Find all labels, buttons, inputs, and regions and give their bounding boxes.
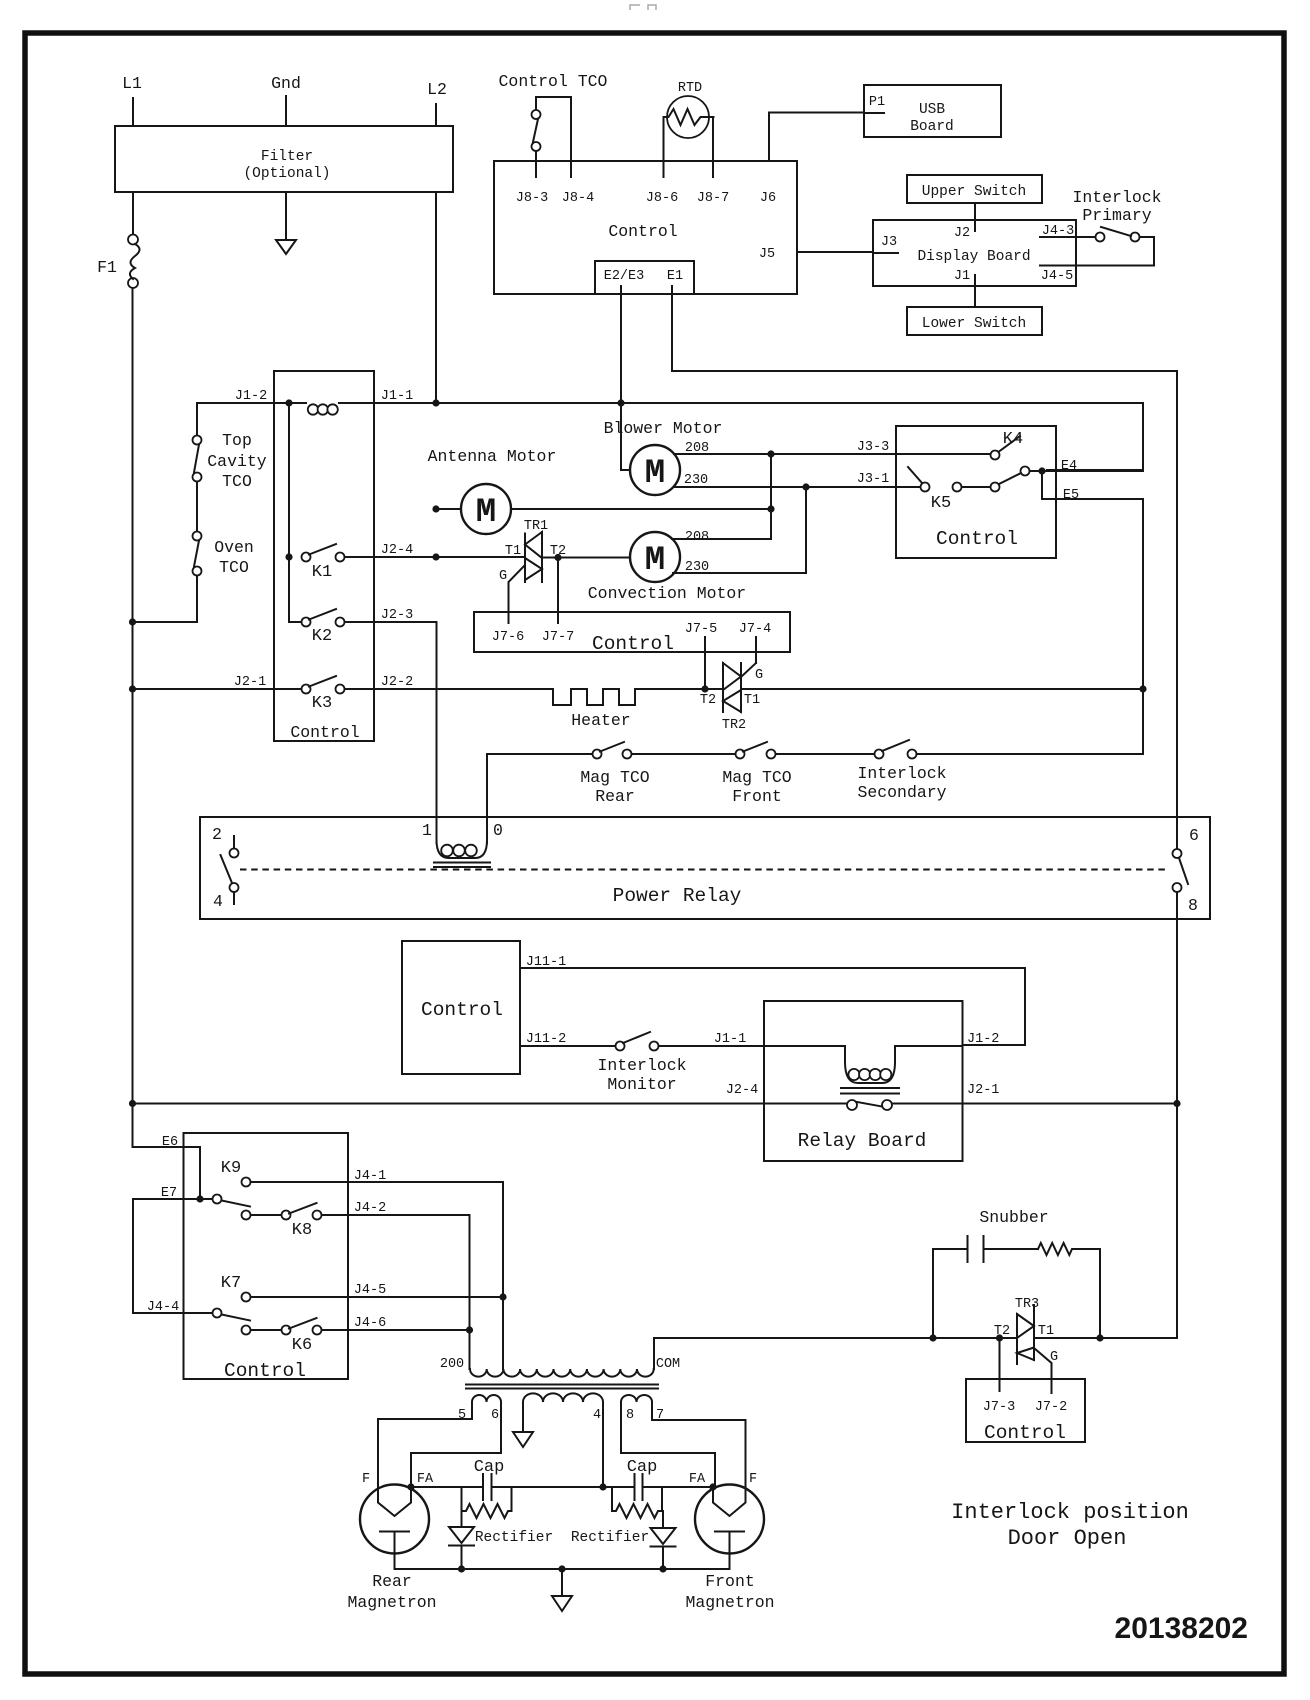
svg-text:J4-2: J4-2 bbox=[354, 1201, 386, 1216]
wire TR3 T2 to J7-3 bbox=[999, 1338, 1001, 1391]
wire upper switch to J2 bbox=[974, 203, 976, 231]
svg-text:J1-1: J1-1 bbox=[714, 1032, 746, 1047]
svg-text:L1: L1 bbox=[122, 74, 142, 93]
wire J6 to USB board bbox=[769, 113, 864, 162]
svg-text:USB: USB bbox=[919, 102, 945, 118]
svg-text:K7: K7 bbox=[221, 1274, 241, 1293]
svg-text:Lower Switch: Lower Switch bbox=[922, 316, 1026, 332]
svg-text:Mag TCO: Mag TCO bbox=[722, 768, 791, 787]
wire display board to lower switch bbox=[974, 286, 976, 307]
transformer T1 primary bbox=[440, 1338, 680, 1377]
svg-text:Control: Control bbox=[224, 1360, 306, 1382]
relay board contact bbox=[847, 1100, 892, 1110]
node dot TR2 T2 bbox=[701, 685, 708, 692]
svg-text:Mag TCO: Mag TCO bbox=[580, 768, 649, 787]
control box J7 bbox=[474, 612, 790, 655]
svg-text:Front: Front bbox=[705, 1572, 755, 1591]
svg-text:G: G bbox=[755, 668, 763, 683]
svg-text:T1: T1 bbox=[1038, 1324, 1054, 1339]
wire J7-5 to TR2 T2 bbox=[704, 637, 706, 689]
node dot TR1 T2 bbox=[554, 554, 561, 561]
svg-text:Control TCO: Control TCO bbox=[499, 72, 608, 91]
E2/E3 E1 terminal box bbox=[595, 261, 694, 294]
relay contact K9 bbox=[213, 1159, 251, 1207]
antenna motor M1 bbox=[428, 447, 771, 534]
svg-text:Rectifier: Rectifier bbox=[475, 1530, 553, 1546]
svg-text:J2-1: J2-1 bbox=[234, 675, 266, 690]
svg-text:TR1: TR1 bbox=[524, 519, 548, 534]
relay board coil bbox=[764, 1046, 963, 1094]
relay contact K3 bbox=[302, 676, 345, 713]
svg-text:4: 4 bbox=[213, 892, 223, 911]
wire J4-4 bbox=[133, 1300, 212, 1315]
svg-text:J8-7: J8-7 bbox=[697, 191, 729, 206]
relay contact pins 6/8 bbox=[1173, 826, 1199, 915]
convection motor M3 bbox=[543, 454, 806, 603]
capacitor Cap front bbox=[627, 1458, 658, 1500]
svg-text:2: 2 bbox=[212, 825, 222, 844]
svg-text:E1: E1 bbox=[667, 269, 683, 284]
svg-text:Door Open: Door Open bbox=[1008, 1526, 1127, 1551]
svg-text:K3: K3 bbox=[312, 694, 332, 713]
svg-text:Upper Switch: Upper Switch bbox=[922, 184, 1026, 200]
thermostat top cavity TCO bbox=[193, 431, 267, 532]
svg-text:Interlock position: Interlock position bbox=[951, 1500, 1189, 1525]
node dot J4-5 tie bbox=[499, 1293, 506, 1300]
svg-text:M: M bbox=[476, 494, 496, 532]
svg-text:(Optional): (Optional) bbox=[243, 166, 330, 182]
svg-text:M: M bbox=[645, 455, 665, 493]
wire J11-2 to interlock monitor bbox=[520, 1032, 615, 1047]
svg-text:Control: Control bbox=[290, 723, 359, 742]
svg-text:1: 1 bbox=[422, 821, 432, 840]
svg-text:M: M bbox=[645, 542, 665, 580]
svg-text:Control: Control bbox=[608, 222, 677, 241]
svg-text:L2: L2 bbox=[427, 80, 447, 99]
interlock primary switch bbox=[1072, 188, 1161, 266]
svg-text:Secondary: Secondary bbox=[857, 783, 946, 802]
svg-text:J5: J5 bbox=[759, 247, 775, 262]
svg-text:J6: J6 bbox=[760, 191, 776, 206]
triac TR3 bbox=[994, 1297, 1058, 1393]
svg-text:Gnd: Gnd bbox=[271, 74, 301, 93]
svg-text:E5: E5 bbox=[1063, 488, 1079, 503]
wire J2-4 long rail bbox=[133, 1083, 848, 1104]
svg-text:Heater: Heater bbox=[571, 711, 630, 730]
upper switch box bbox=[907, 175, 1042, 203]
magnetron front bbox=[685, 1472, 774, 1612]
display board bbox=[873, 220, 1076, 286]
wire J4-1 bbox=[251, 1169, 504, 1369]
svg-text:Primary: Primary bbox=[1082, 206, 1151, 225]
svg-text:J2: J2 bbox=[954, 226, 970, 241]
node dot J2-1 on L1 rail bbox=[129, 685, 136, 692]
thermostat mag TCO rear bbox=[580, 742, 735, 806]
svg-text:J3-3: J3-3 bbox=[857, 440, 889, 455]
wire E2/E3 down to node bbox=[620, 286, 622, 403]
svg-text:K5: K5 bbox=[931, 494, 951, 513]
wire E7 to J4-4 vertical bbox=[132, 1199, 134, 1313]
relay contact pins 2/4 bbox=[212, 825, 238, 911]
wire pin8 down right rail bbox=[1052, 892, 1178, 1338]
node dot snubber right bbox=[1096, 1334, 1103, 1341]
svg-text:J2-1: J2-1 bbox=[967, 1083, 999, 1098]
node dot K1 branch bbox=[285, 553, 292, 560]
snubber network bbox=[933, 1208, 1100, 1338]
svg-text:Oven: Oven bbox=[214, 538, 254, 557]
svg-text:Snubber: Snubber bbox=[979, 1208, 1048, 1227]
control box K4/K5 bbox=[896, 426, 1056, 558]
diode rectifier rear bbox=[449, 1511, 553, 1569]
svg-text:Rear: Rear bbox=[372, 1572, 412, 1591]
control box J11 bbox=[402, 941, 520, 1074]
node dot J4-6 tie bbox=[466, 1326, 473, 1333]
svg-text:230: 230 bbox=[684, 473, 708, 488]
svg-text:Control: Control bbox=[592, 633, 674, 655]
svg-text:200: 200 bbox=[440, 1357, 464, 1372]
svg-text:P1: P1 bbox=[869, 95, 885, 110]
svg-text:Control: Control bbox=[421, 999, 503, 1021]
svg-text:J1-2: J1-2 bbox=[235, 389, 267, 404]
node dot antenna tap bbox=[432, 505, 439, 512]
svg-text:J4-6: J4-6 bbox=[354, 1316, 386, 1331]
control box K1-K3 bbox=[274, 371, 374, 742]
relay contact K6 bbox=[213, 1309, 322, 1356]
svg-text:FA: FA bbox=[417, 1472, 434, 1487]
svg-text:F: F bbox=[362, 1472, 370, 1487]
wire J2-2 rail with heater gap bbox=[345, 675, 1144, 690]
relay board box bbox=[764, 1001, 963, 1161]
thermostat mag TCO front bbox=[722, 742, 874, 806]
svg-text:FA: FA bbox=[689, 1472, 706, 1487]
transformer T1 secondary 8-7 bbox=[621, 1395, 746, 1489]
transformer T1 core bbox=[466, 1385, 658, 1389]
svg-text:J8-6: J8-6 bbox=[646, 191, 678, 206]
svg-text:8: 8 bbox=[1188, 896, 1198, 915]
svg-text:Filter: Filter bbox=[261, 149, 313, 165]
svg-text:Display Board: Display Board bbox=[917, 249, 1030, 265]
wire J4-6 bbox=[322, 1316, 470, 1331]
node dot front FA bbox=[709, 1483, 716, 1490]
wire L1 to fuse bbox=[132, 192, 134, 234]
wire E5 bbox=[1042, 470, 1143, 754]
node dot J2-4/L2 bbox=[432, 553, 439, 560]
svg-text:J7-5: J7-5 bbox=[685, 622, 717, 637]
node dot J2-1 right rail bbox=[1173, 1100, 1180, 1107]
control box J7 bottom bbox=[966, 1379, 1085, 1444]
relay contact K7 bbox=[221, 1274, 251, 1302]
wire J2-1 bbox=[133, 675, 302, 690]
node Gnd bbox=[271, 74, 301, 126]
svg-text:K8: K8 bbox=[292, 1221, 312, 1240]
wire J5 to display board bbox=[759, 247, 873, 262]
svg-text:J7-6: J7-6 bbox=[492, 630, 524, 645]
wire L2 down to main node bbox=[435, 192, 437, 403]
transformer T1 secondary 4 with ground tap bbox=[513, 1393, 603, 1487]
svg-text:Interlock: Interlock bbox=[597, 1056, 686, 1075]
svg-text:Control: Control bbox=[984, 1422, 1066, 1444]
triac TR2 bbox=[700, 663, 763, 733]
wire J4-2 bbox=[322, 1201, 470, 1369]
svg-text:J11-2: J11-2 bbox=[526, 1032, 567, 1047]
svg-text:T2: T2 bbox=[994, 1324, 1010, 1339]
svg-text:J3: J3 bbox=[881, 235, 897, 250]
diode rectifier front bbox=[571, 1511, 676, 1569]
wire J2-4 bbox=[345, 543, 525, 558]
node dot L2 rail bbox=[432, 399, 439, 406]
svg-text:Convection Motor: Convection Motor bbox=[588, 584, 746, 603]
node dot E2/E3 rail bbox=[617, 399, 624, 406]
wire J4-5 bbox=[251, 1283, 504, 1298]
node dot antenna/208 tie bbox=[767, 505, 774, 512]
svg-text:J7-3: J7-3 bbox=[983, 1400, 1015, 1415]
svg-text:J4-5: J4-5 bbox=[354, 1283, 386, 1298]
node dot J2-2 E5 bbox=[1139, 685, 1146, 692]
svg-text:Relay Board: Relay Board bbox=[798, 1130, 927, 1152]
svg-text:20138202: 20138202 bbox=[1115, 1612, 1248, 1645]
node dot front rectifier bbox=[659, 1565, 666, 1572]
svg-text:Rectifier: Rectifier bbox=[571, 1530, 649, 1546]
transformer T1 secondary 5-6 bbox=[378, 1395, 501, 1489]
control box K6-K9 bbox=[184, 1133, 349, 1382]
wire L1 main left vertical bbox=[132, 288, 134, 1147]
svg-text:Interlock: Interlock bbox=[1072, 188, 1161, 207]
relay contact K4 bbox=[857, 430, 1023, 460]
svg-text:208: 208 bbox=[685, 530, 709, 545]
svg-text:J2-3: J2-3 bbox=[381, 608, 413, 623]
wire J1-2 down to TCO bbox=[196, 403, 198, 435]
switch interlock secondary bbox=[857, 740, 1143, 802]
svg-text:J1-1: J1-1 bbox=[381, 389, 413, 404]
node dot TR3 T2 bbox=[996, 1334, 1003, 1341]
power relay box bbox=[200, 817, 1210, 919]
relay contact K8 bbox=[242, 1203, 322, 1240]
svg-text:Magnetron: Magnetron bbox=[685, 1593, 774, 1612]
wire COM rail to TR3 bbox=[654, 1337, 1177, 1339]
ground symbol below filter bbox=[276, 192, 296, 254]
svg-text:J8-3: J8-3 bbox=[516, 191, 548, 206]
node dot snubber left bbox=[929, 1334, 936, 1341]
node dot rear rectifier bbox=[458, 1565, 465, 1572]
svg-text:Board: Board bbox=[910, 119, 954, 135]
svg-text:Front: Front bbox=[732, 787, 782, 806]
inductor coil J1 bbox=[308, 404, 318, 414]
resistor bleed rear bbox=[462, 1487, 512, 1518]
capacitor Cap rear bbox=[474, 1458, 505, 1500]
wire E1 long to power relay pin6 bbox=[672, 286, 1177, 849]
wire T2 to J7-7 bbox=[557, 558, 559, 623]
wire J7-4 to TR2 gate bbox=[755, 637, 757, 663]
node dot 208 tie bbox=[767, 450, 774, 457]
svg-text:Magnetron: Magnetron bbox=[347, 1593, 436, 1612]
control TCO switch bbox=[499, 72, 608, 177]
node dot E6/E7 junction bbox=[196, 1195, 203, 1202]
svg-text:J2-2: J2-2 bbox=[381, 675, 413, 690]
svg-text:Cavity: Cavity bbox=[207, 452, 267, 471]
svg-text:K9: K9 bbox=[221, 1159, 241, 1178]
svg-text:J2-4: J2-4 bbox=[381, 543, 413, 558]
svg-text:J1-2: J1-2 bbox=[967, 1032, 999, 1047]
svg-text:6: 6 bbox=[491, 1408, 499, 1423]
heater element bbox=[553, 689, 635, 730]
svg-text:Interlock: Interlock bbox=[857, 764, 946, 783]
svg-text:Control: Control bbox=[936, 528, 1018, 550]
resistor bleed front bbox=[612, 1487, 662, 1518]
node dot 230 tie bbox=[802, 483, 809, 490]
wire power relay pin0 to interlock secondary rail bbox=[487, 754, 597, 843]
svg-text:4: 4 bbox=[593, 1408, 601, 1423]
switch interlock monitor bbox=[597, 1032, 764, 1094]
svg-text:J1: J1 bbox=[954, 269, 970, 284]
svg-text:TR3: TR3 bbox=[1015, 1297, 1039, 1312]
node dot J1-2 rail bbox=[285, 399, 292, 406]
svg-text:F: F bbox=[749, 1472, 757, 1487]
svg-text:F1: F1 bbox=[97, 258, 117, 277]
svg-text:J8-4: J8-4 bbox=[562, 191, 594, 206]
triac TR1 bbox=[499, 519, 566, 623]
svg-text:J7-7: J7-7 bbox=[542, 630, 574, 645]
svg-text:6: 6 bbox=[1189, 826, 1199, 845]
fuse F1 bbox=[97, 235, 139, 289]
svg-text:J2-4: J2-4 bbox=[726, 1083, 758, 1098]
svg-text:TCO: TCO bbox=[222, 472, 252, 491]
node dot ground tap bbox=[558, 1565, 565, 1572]
svg-text:G: G bbox=[499, 569, 507, 584]
relay coil pins 1/0 bbox=[422, 821, 503, 867]
svg-text:J7-4: J7-4 bbox=[739, 622, 771, 637]
magnetron rear bbox=[347, 1472, 436, 1612]
wire K-chain vertical bbox=[289, 403, 301, 622]
svg-text:T1: T1 bbox=[744, 693, 760, 708]
svg-text:TR2: TR2 bbox=[722, 718, 746, 733]
svg-text:Antenna Motor: Antenna Motor bbox=[428, 447, 557, 466]
svg-text:Top: Top bbox=[222, 431, 252, 450]
node L2 bbox=[427, 80, 447, 126]
relay contact K2 bbox=[302, 609, 345, 646]
svg-text:5: 5 bbox=[458, 1408, 466, 1423]
thermostat oven TCO bbox=[133, 532, 254, 623]
svg-text:T2: T2 bbox=[700, 693, 716, 708]
node dot rear FA bbox=[407, 1483, 414, 1490]
filter box (optional) bbox=[115, 126, 453, 192]
USB board bbox=[864, 85, 1001, 137]
node dot TCO to L1 rail bbox=[129, 618, 136, 625]
svg-text:T1: T1 bbox=[505, 544, 521, 559]
svg-text:Monitor: Monitor bbox=[607, 1075, 676, 1094]
svg-text:TCO: TCO bbox=[219, 558, 249, 577]
wire E7 bbox=[133, 1186, 212, 1201]
svg-text:K2: K2 bbox=[312, 627, 332, 646]
svg-text:J7-2: J7-2 bbox=[1035, 1400, 1067, 1415]
wire main top rail J1-1 to E4 bbox=[197, 389, 1143, 470]
wire J2-1 relay board to right rail bbox=[892, 1083, 1177, 1104]
svg-text:Power Relay: Power Relay bbox=[613, 885, 742, 907]
svg-text:Rear: Rear bbox=[595, 787, 635, 806]
relay contact K1 bbox=[302, 544, 345, 582]
ground symbol bottom bbox=[552, 1569, 572, 1611]
node dot pin4 to FA rail bbox=[599, 1483, 606, 1490]
svg-text:J4-5: J4-5 bbox=[1041, 269, 1073, 284]
node L1 bbox=[122, 74, 142, 126]
blower motor M2 bbox=[604, 403, 991, 495]
svg-text:E2/E3: E2/E3 bbox=[604, 269, 645, 284]
svg-text:K6: K6 bbox=[292, 1336, 312, 1355]
wire J2-3 to power relay coil bbox=[345, 608, 437, 843]
wire J11-1 to relay board J1-2 bbox=[520, 955, 1025, 1047]
resistor RTD bbox=[664, 81, 714, 177]
svg-text:Cap: Cap bbox=[474, 1458, 505, 1477]
relay contact K5 bbox=[857, 467, 1143, 514]
svg-text:J3-1: J3-1 bbox=[857, 472, 889, 487]
svg-text:8: 8 bbox=[626, 1408, 634, 1423]
wire cathode bottom rail bbox=[395, 1553, 730, 1569]
svg-text:COM: COM bbox=[656, 1357, 680, 1372]
lower switch box bbox=[907, 307, 1042, 335]
node dot J2-4 on L1 rail bbox=[129, 1100, 136, 1107]
wire FA rail bbox=[411, 1486, 713, 1488]
svg-text:RTD: RTD bbox=[678, 81, 702, 96]
svg-text:K1: K1 bbox=[312, 563, 332, 582]
wire E6 bbox=[133, 1135, 201, 1199]
note interlock position bbox=[951, 1500, 1189, 1551]
control board U-top bbox=[494, 161, 797, 294]
svg-text:0: 0 bbox=[493, 821, 503, 840]
